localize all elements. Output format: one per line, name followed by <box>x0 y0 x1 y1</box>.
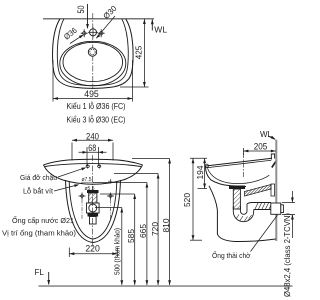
dimension Ø48 arrows at wall stub <box>282 191 295 238</box>
drain pipe body (front) <box>89 193 97 203</box>
dimension 425 (plan depth) <box>120 19 149 87</box>
dimension 810 vertical <box>132 159 171 286</box>
bracket rail hatched (side) <box>245 184 275 196</box>
svg-text:Ø48x2,4 (class 2-TCVN): Ø48x2,4 (class 2-TCVN) <box>283 213 292 297</box>
svg-text:Ống cấp nước Ø21: Ống cấp nước Ø21 <box>12 215 74 225</box>
faucet hole centre circle <box>88 27 98 38</box>
plan centre line <box>92 13 94 89</box>
left fixing hole <box>86 164 89 169</box>
dimension 50 (wall to tap hole) <box>76 4 89 29</box>
label Ø36 with leader <box>62 26 84 44</box>
wall flange box (side) <box>271 203 284 214</box>
wall line (plan) <box>43 18 154 20</box>
dimension 205 <box>243 141 275 155</box>
dimension 665 vertical <box>93 183 148 286</box>
drain tailpipe (front) <box>90 217 97 225</box>
wall line (side) <box>275 140 277 241</box>
right tap hole cross <box>98 29 105 37</box>
svg-text:425: 425 <box>133 45 143 59</box>
drain nut with circle (front) <box>87 203 100 213</box>
svg-text:Vị trí ống (tham khảo): Vị trí ống (tham khảo) <box>2 229 77 238</box>
supply pipe centre lines (front) <box>81 200 83 220</box>
basin underside (front) <box>44 165 143 185</box>
svg-text:Giá đỡ chậu: Giá đỡ chậu <box>20 173 57 182</box>
shroud inner U (front) <box>69 181 117 239</box>
dimension 240 (fixing holes) <box>72 131 113 160</box>
svg-text:585: 585 <box>126 229 136 243</box>
svg-text:205: 205 <box>254 141 268 151</box>
dimension 585 vertical <box>100 194 136 285</box>
basin dish outline (front) <box>44 159 143 165</box>
dimension 520 (rim to shroud bottom) <box>182 158 202 240</box>
basin profile (side) <box>205 154 275 187</box>
svg-text:50: 50 <box>76 6 87 14</box>
WL marker (side) <box>260 130 276 140</box>
svg-text:Ống thải chờ: Ống thải chờ <box>212 250 251 260</box>
dimension 68 (tap holes) <box>79 143 107 166</box>
floor line <box>39 285 293 287</box>
label Lo bat vit with leader <box>23 184 79 195</box>
svg-text:Lỗ bắt vít: Lỗ bắt vít <box>23 187 54 196</box>
svg-text:810: 810 <box>161 218 171 232</box>
trap tailpiece (side) <box>233 189 240 209</box>
left tap hole cross <box>81 29 88 37</box>
svg-text:FL: FL <box>35 268 45 277</box>
shroud (side) <box>209 186 276 242</box>
dimension 194 (basin rim height) <box>190 158 207 188</box>
label Ong thai cho with leader <box>212 215 277 260</box>
drain hole circles (plan) <box>88 48 96 56</box>
dimension 720 vertical <box>114 174 160 286</box>
svg-text:665: 665 <box>138 224 148 238</box>
right fixing hole <box>98 164 101 169</box>
dimension 500 (tham khao) vertical <box>95 208 123 286</box>
drain flange (front, filled) <box>87 190 99 193</box>
front centre line <box>92 155 94 247</box>
svg-text:Kiểu 1 lỗ Ø36 (FC): Kiểu 1 lỗ Ø36 (FC) <box>67 101 126 111</box>
svg-text:520: 520 <box>182 193 192 207</box>
basin inner rim line (plan) <box>57 19 128 86</box>
WL marker (plan) <box>151 19 167 34</box>
bowl outer ellipse (plan) <box>60 41 126 85</box>
label Ø30 with leader <box>96 4 119 39</box>
label Gia do chau with leader <box>20 167 86 182</box>
rim-wall corner mark <box>272 160 277 168</box>
dimension 220 (shroud width) <box>69 243 117 257</box>
svg-text:240: 240 <box>86 131 99 141</box>
bowl inner ellipse (plan) <box>63 42 123 81</box>
basin rim second line (front) <box>45 164 141 167</box>
svg-text:68: 68 <box>88 143 96 153</box>
right supply position mark <box>107 193 114 200</box>
trap horizontal pipe to wall (side) <box>247 203 272 210</box>
FL marker <box>35 268 51 285</box>
drain lower band (front, filled) <box>88 213 99 217</box>
basin front tip bulb (side) <box>205 164 208 167</box>
svg-text:WL: WL <box>154 24 167 34</box>
svg-text:500 (tham khảo): 500 (tham khảo) <box>112 228 121 275</box>
svg-text:720: 720 <box>150 222 160 236</box>
svg-text:Kiểu 3 lỗ Ø30 (EC): Kiểu 3 lỗ Ø30 (EC) <box>67 114 126 124</box>
bracket tick (front right) <box>108 179 112 183</box>
tap centre line (side) <box>242 153 244 178</box>
trap U-bend (side) <box>233 204 253 222</box>
svg-text:220: 220 <box>85 243 100 253</box>
svg-text:495: 495 <box>84 89 99 99</box>
basin outer outline (plan) <box>53 19 134 89</box>
drain flange (side, filled) <box>229 186 245 190</box>
left supply position mark <box>79 193 86 200</box>
shroud outer U (front) <box>66 180 121 243</box>
svg-text:194: 194 <box>195 165 205 179</box>
dimension 495 (plan width) <box>53 60 133 102</box>
